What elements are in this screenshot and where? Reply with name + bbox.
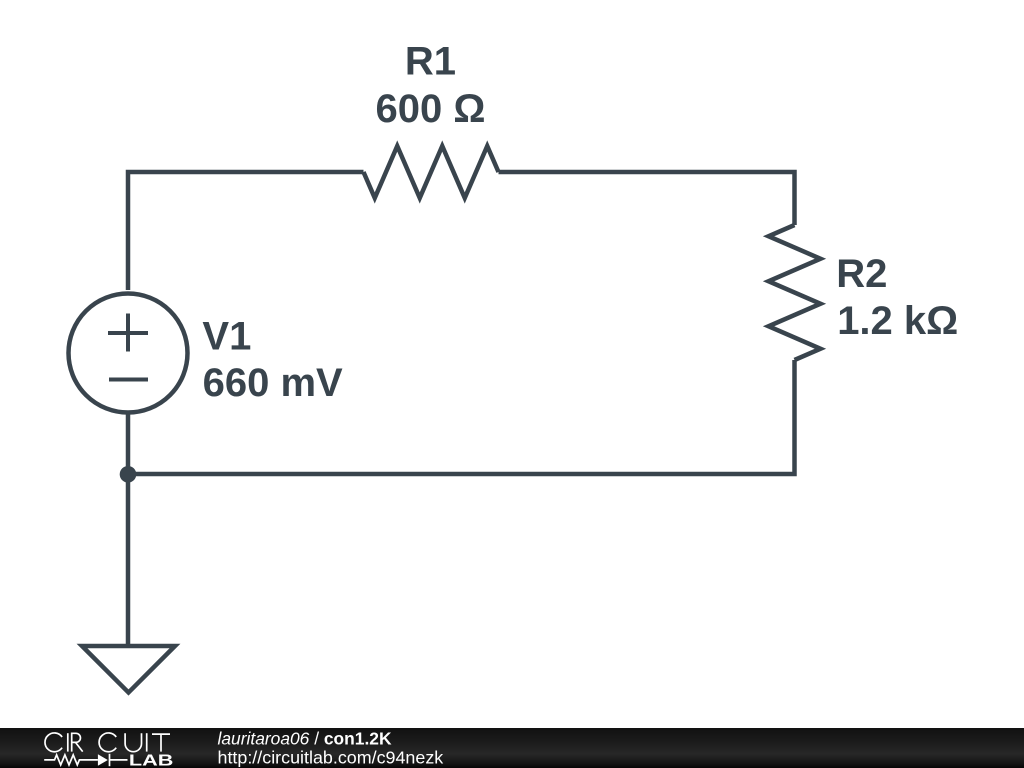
logo CIRCUIT (thin stroked letters) — [45, 733, 170, 752]
wire: R2 bottom to node A — [128, 360, 795, 474]
svg-text:LAB: LAB — [129, 753, 174, 768]
node A junction dot — [120, 466, 137, 483]
wire: R1 right terminal to R2 top — [499, 172, 795, 225]
svg-text:V1: V1 — [202, 315, 251, 359]
svg-text:R2: R2 — [836, 252, 887, 296]
svg-text:lauritaroa06 / con1.2K: lauritaroa06 / con1.2K — [218, 728, 392, 748]
svg-text:1.2 kΩ: 1.2 kΩ — [837, 299, 958, 343]
svg-text:600 Ω: 600 Ω — [376, 87, 486, 131]
logo resistor-diode line — [44, 754, 127, 766]
resistor R2 — [769, 225, 821, 360]
voltage source V1 — [69, 294, 188, 413]
logo diode triangle — [98, 754, 108, 766]
resistor R1 — [364, 146, 499, 198]
svg-text:660 mV: 660 mV — [203, 361, 343, 405]
svg-text:http://circuitlab.com/c94nezk: http://circuitlab.com/c94nezk — [218, 747, 444, 767]
V1 plus sign — [108, 314, 148, 352]
V1 minus sign — [109, 378, 148, 382]
wire: V1 top to R1 left terminal — [128, 172, 364, 290]
ground — [82, 646, 175, 693]
wire: V1 bottom to ground — [126, 412, 131, 645]
svg-text:R1: R1 — [405, 40, 456, 84]
